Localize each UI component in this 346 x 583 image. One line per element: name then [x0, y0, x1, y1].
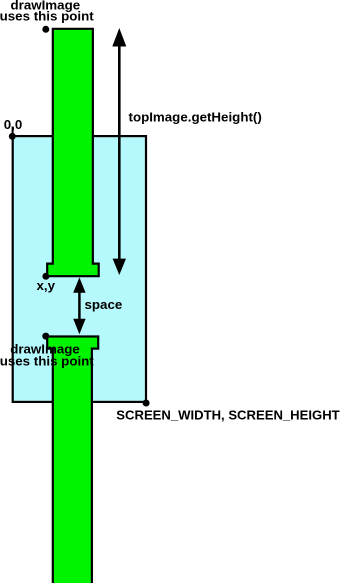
svg-text:x,y: x,y	[37, 278, 56, 293]
svg-text:space: space	[85, 297, 123, 312]
svg-text:0,0: 0,0	[4, 117, 23, 132]
svg-text:uses this point: uses this point	[0, 8, 94, 23]
svg-text:SCREEN_WIDTH, SCREEN_HEIGHT: SCREEN_WIDTH, SCREEN_HEIGHT	[116, 407, 339, 422]
svg-text:topImage.getHeight(): topImage.getHeight()	[129, 110, 262, 125]
svg-text:uses this point: uses this point	[0, 354, 94, 369]
